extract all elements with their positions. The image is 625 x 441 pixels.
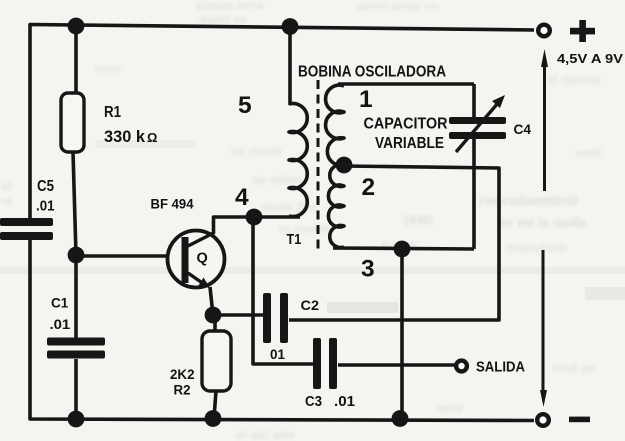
svg-text:R1: R1 [104,104,121,121]
svg-text:el sel ade: el sel ade [236,427,295,441]
svg-text:330 k: 330 k [104,127,146,146]
svg-text:.01: .01 [334,394,355,410]
svg-text:C4: C4 [514,122,532,137]
svg-text:2: 2 [362,174,376,201]
svg-text:SALIDA: SALIDA [476,360,525,376]
svg-text:el nerma: el nerma [547,72,601,87]
svg-text:.01: .01 [50,316,71,332]
svg-text:CAPACITOR: CAPACITOR [364,116,448,133]
svg-text:1: 1 [359,86,373,113]
svg-text:nese: nese [436,401,464,415]
svg-text:C3: C3 [305,394,322,410]
svg-text:3: 3 [361,256,375,283]
svg-text:5: 5 [238,92,252,119]
svg-text:T1: T1 [287,231,302,248]
svg-text:01: 01 [270,346,285,362]
svg-text:resd ao: resd ao [552,361,595,375]
svg-text:es norm: es norm [231,143,282,158]
svg-text:nmeslneo: nmeslneo [506,240,567,255]
svg-text:re: re [1,194,13,208]
svg-text:2K2: 2K2 [170,367,195,382]
svg-text:C5: C5 [37,178,54,195]
svg-text:BOBINA OSCILADORA: BOBINA OSCILADORA [298,64,446,81]
svg-text:Ω: Ω [147,130,157,145]
svg-text:4: 4 [235,184,249,211]
svg-text:R2: R2 [174,383,191,398]
svg-text:C1: C1 [51,295,68,311]
svg-text:Q: Q [197,251,208,267]
svg-text:rnecsdaemtnsl: rnecsdaemtnsl [479,192,578,208]
svg-text:4,5V A 9V: 4,5V A 9V [557,51,623,66]
svg-text:VARIABLE: VARIABLE [375,135,444,152]
svg-text:se obive: se obive [252,172,304,187]
svg-text:sl: sl [1,179,11,193]
svg-text:.01: .01 [36,198,55,215]
svg-text:sv eo ls uode: sv eo ls uode [498,214,587,230]
svg-text:(AM): (AM) [404,212,433,227]
svg-text:ecnu: ecnu [95,63,121,75]
svg-text:C2: C2 [301,297,320,313]
svg-text:seol: seol [575,145,601,160]
svg-text:BF 494: BF 494 [151,197,194,212]
svg-text:sehnd wrloe vm: sehnd wrloe vm [356,1,439,13]
